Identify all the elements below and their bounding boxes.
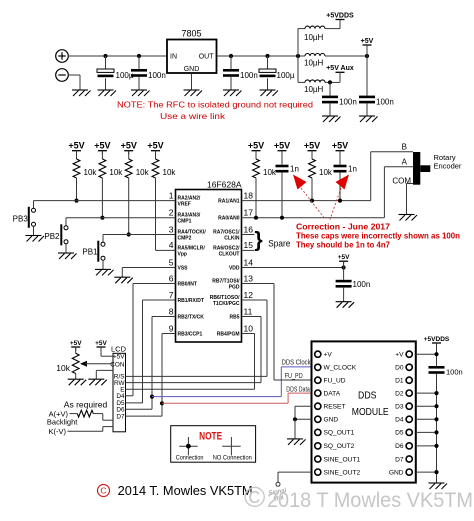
svg-text:17: 17 xyxy=(244,208,254,218)
svg-text:+5V: +5V xyxy=(274,141,290,151)
svg-text:100n: 100n xyxy=(376,98,394,107)
svg-text:8: 8 xyxy=(169,306,174,316)
svg-text:D0: D0 xyxy=(395,365,404,372)
svg-text:D7: D7 xyxy=(116,413,125,420)
svg-text:SINE_OUT2: SINE_OUT2 xyxy=(324,469,361,476)
svg-text:10k: 10k xyxy=(84,168,98,177)
svg-text:CLKOUT: CLKOUT xyxy=(219,251,240,257)
svg-text:GND: GND xyxy=(324,417,339,424)
svg-text:2014 T. Mowles VK5TM: 2014 T. Mowles VK5TM xyxy=(118,483,253,498)
svg-text:RB5: RB5 xyxy=(229,315,239,321)
svg-text:D7: D7 xyxy=(395,456,404,463)
svg-text:These caps were incorrectly sh: These caps were incorrectly shown as 100… xyxy=(296,232,460,241)
svg-text:2: 2 xyxy=(169,208,174,218)
svg-text:RB3/CCP1: RB3/CCP1 xyxy=(178,332,203,338)
svg-text:12: 12 xyxy=(244,290,254,300)
svg-text:FU_UD: FU_UD xyxy=(324,378,346,385)
svg-text:©: © xyxy=(244,482,265,514)
svg-text:9: 9 xyxy=(169,323,174,333)
svg-text:+5V: +5V xyxy=(332,141,348,151)
svg-text:D3: D3 xyxy=(395,404,404,411)
svg-text:DDS: DDS xyxy=(358,390,377,401)
svg-text:Vpp: Vpp xyxy=(178,251,187,257)
svg-text:Use a wire link: Use a wire link xyxy=(160,111,226,121)
svg-text:SINE_OUT1: SINE_OUT1 xyxy=(324,456,361,463)
svg-text:Backlight: Backlight xyxy=(47,418,78,427)
svg-text:As required: As required xyxy=(64,400,108,410)
svg-text:13: 13 xyxy=(244,273,254,283)
svg-text:They should be 1n to 4n7: They should be 1n to 4n7 xyxy=(296,241,391,250)
svg-text:100n: 100n xyxy=(353,280,371,289)
svg-text:10: 10 xyxy=(244,323,254,333)
svg-text:+5V: +5V xyxy=(68,141,84,151)
svg-text:W_CLOCK: W_CLOCK xyxy=(324,365,357,372)
svg-text:+V: +V xyxy=(324,352,333,359)
svg-text:10µH: 10µH xyxy=(304,33,324,42)
svg-text:10µH: 10µH xyxy=(304,85,324,94)
svg-text:3: 3 xyxy=(169,224,174,234)
svg-text:PB2: PB2 xyxy=(44,232,60,241)
svg-text:10k: 10k xyxy=(163,168,177,177)
svg-text:7805: 7805 xyxy=(181,29,201,39)
svg-text:16F628A: 16F628A xyxy=(207,179,242,189)
svg-text:Correction - June 2017: Correction - June 2017 xyxy=(296,223,391,232)
svg-text:K(-V): K(-V) xyxy=(49,427,67,436)
svg-text:+5V: +5V xyxy=(113,354,125,361)
svg-text:2018 T Mowles VK5TM: 2018 T Mowles VK5TM xyxy=(267,488,473,512)
svg-text:PB1: PB1 xyxy=(82,248,98,257)
svg-text:10k: 10k xyxy=(263,168,277,177)
svg-text:Connection: Connection xyxy=(176,455,204,462)
svg-text:T1CKI/PGC: T1CKI/PGC xyxy=(213,301,240,307)
svg-text:Spare: Spare xyxy=(268,239,290,250)
svg-text:4: 4 xyxy=(169,240,174,250)
svg-text:6: 6 xyxy=(169,273,174,283)
svg-text:SQ_OUT1: SQ_OUT1 xyxy=(324,430,355,437)
svg-text:7: 7 xyxy=(169,290,174,300)
svg-text:FU_PD: FU_PD xyxy=(285,373,303,380)
svg-text:100µ: 100µ xyxy=(277,71,295,80)
svg-text:+V: +V xyxy=(395,352,404,359)
svg-text:RB2/TX/CK: RB2/TX/CK xyxy=(178,315,205,321)
svg-text:10k: 10k xyxy=(319,168,333,177)
svg-text:SQ_OUT2: SQ_OUT2 xyxy=(324,443,355,450)
svg-text:CON: CON xyxy=(110,361,125,368)
svg-text:DATA: DATA xyxy=(324,390,341,397)
svg-text:D4: D4 xyxy=(116,393,125,400)
svg-text:+5V Aux: +5V Aux xyxy=(326,65,354,72)
svg-text:RESET: RESET xyxy=(324,404,346,411)
svg-text:CMP1: CMP1 xyxy=(178,219,192,225)
svg-text:10k: 10k xyxy=(56,363,70,373)
svg-text:PGD: PGD xyxy=(229,285,240,291)
svg-text:+5V: +5V xyxy=(70,340,82,347)
svg-text:+5V: +5V xyxy=(95,340,107,347)
svg-text:+5V: +5V xyxy=(94,141,110,151)
svg-text:10k: 10k xyxy=(136,168,150,177)
svg-text:+5V: +5V xyxy=(338,254,350,261)
svg-text:10µH: 10µH xyxy=(304,59,324,68)
svg-text:1n: 1n xyxy=(290,165,299,174)
svg-text:RB0/INT: RB0/INT xyxy=(178,282,197,288)
svg-text:+5V: +5V xyxy=(248,141,264,151)
svg-text:DDS Data: DDS Data xyxy=(286,387,310,394)
svg-text:GND: GND xyxy=(389,469,404,476)
svg-text:RA1/AN1: RA1/AN1 xyxy=(218,199,240,205)
svg-text:18: 18 xyxy=(244,190,254,200)
svg-text:A: A xyxy=(402,158,408,167)
svg-text:D2: D2 xyxy=(395,390,404,397)
svg-text:CMP2: CMP2 xyxy=(178,236,192,242)
svg-text:CLKIN: CLKIN xyxy=(224,236,240,242)
svg-text:NOTE: NOTE xyxy=(199,431,222,443)
svg-text:+5V: +5V xyxy=(147,141,163,151)
svg-text:D6: D6 xyxy=(395,443,404,450)
svg-text:D5: D5 xyxy=(395,430,404,437)
svg-text:+5VDDS: +5VDDS xyxy=(424,336,450,343)
svg-text:+5V: +5V xyxy=(361,38,374,45)
svg-text:DDS Clock: DDS Clock xyxy=(282,359,311,366)
svg-text:C: C xyxy=(100,486,106,496)
svg-text:1n: 1n xyxy=(348,165,357,174)
svg-text:RA0/AN0: RA0/AN0 xyxy=(218,216,240,222)
svg-text:NOTE: The RFC to isolated gro: NOTE: The RFC to isolated ground not req… xyxy=(117,100,313,110)
svg-text:15: 15 xyxy=(244,240,254,250)
svg-text:100n: 100n xyxy=(148,71,166,80)
svg-text:B: B xyxy=(402,143,407,152)
svg-text:RB4/PGM: RB4/PGM xyxy=(217,332,240,338)
svg-text:RB1/RX/DT: RB1/RX/DT xyxy=(178,298,204,304)
svg-text:PB3: PB3 xyxy=(13,215,29,224)
svg-text:VDD: VDD xyxy=(229,266,240,272)
svg-text:11: 11 xyxy=(244,306,253,316)
svg-text:100n: 100n xyxy=(339,98,357,107)
svg-text:LCD: LCD xyxy=(111,345,127,354)
svg-text:100n: 100n xyxy=(446,368,463,377)
svg-text:MODULE: MODULE xyxy=(352,407,389,418)
svg-text:IN: IN xyxy=(170,54,177,61)
svg-text:+5V: +5V xyxy=(121,141,137,151)
svg-text:GND: GND xyxy=(184,66,200,73)
svg-text:COM: COM xyxy=(392,177,411,186)
svg-text:}: } xyxy=(255,228,263,251)
svg-text:14: 14 xyxy=(244,257,254,267)
svg-text:10k: 10k xyxy=(109,168,123,177)
svg-text:D4: D4 xyxy=(395,417,404,424)
svg-text:VREF: VREF xyxy=(178,202,191,208)
svg-text:D1: D1 xyxy=(395,378,404,385)
svg-text:16: 16 xyxy=(244,224,254,234)
svg-text:5: 5 xyxy=(169,257,174,267)
svg-text:NO Connection: NO Connection xyxy=(213,455,252,462)
svg-text:VSS: VSS xyxy=(178,266,189,272)
svg-text:1: 1 xyxy=(169,190,174,200)
svg-text:OUT: OUT xyxy=(199,54,215,61)
svg-text:+5VDDS: +5VDDS xyxy=(326,12,354,19)
svg-text:+5V: +5V xyxy=(304,141,320,151)
svg-text:100n: 100n xyxy=(240,71,258,80)
svg-text:Encoder: Encoder xyxy=(434,162,462,171)
